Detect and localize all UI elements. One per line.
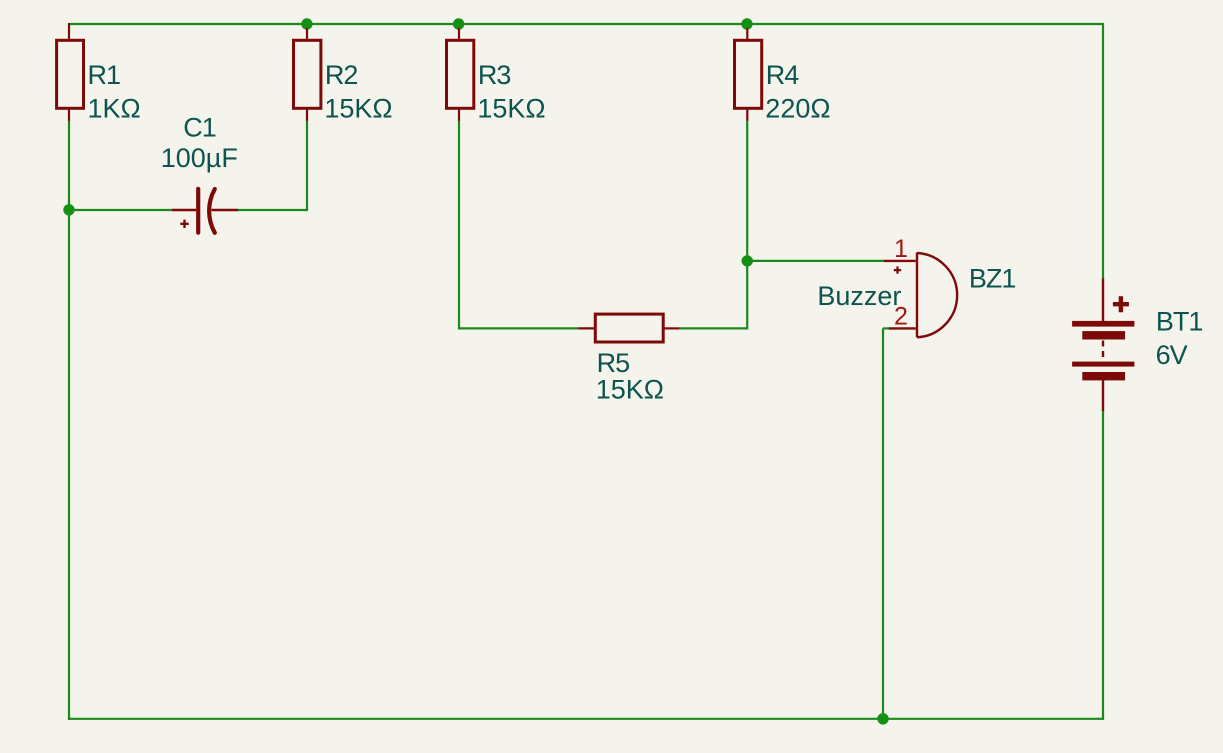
- wire R3 bottom vertical: [458, 120, 460, 330]
- junction node top R2: [301, 18, 312, 29]
- junction node bottom rail buzzer: [877, 713, 888, 724]
- resistor R3: [447, 28, 474, 121]
- buzzer pin 1: [884, 260, 916, 262]
- wire R5 right to corner: [679, 327, 747, 329]
- svg-text:BT1: BT1: [1156, 306, 1203, 336]
- battery plus mark: [1113, 296, 1129, 312]
- wire right rail upper: [1102, 23, 1104, 279]
- svg-text:100µF: 100µF: [161, 143, 238, 173]
- wire top rail: [69, 23, 1103, 25]
- wire R2 bottom vertical: [306, 120, 308, 211]
- svg-text:1KΩ: 1KΩ: [88, 93, 141, 123]
- wire R5 corner up to node: [746, 261, 748, 330]
- wire R4 bottom to node: [746, 120, 748, 261]
- resistor R1: [57, 23, 84, 121]
- svg-text:220Ω: 220Ω: [765, 93, 830, 123]
- wire node to buzzer pin1: [747, 260, 884, 262]
- svg-text:R5: R5: [597, 348, 630, 378]
- svg-text:BZ1: BZ1: [969, 263, 1016, 293]
- svg-text:2: 2: [894, 303, 907, 331]
- capacitor C1: [172, 189, 238, 233]
- svg-text:15KΩ: 15KΩ: [477, 93, 545, 123]
- buzzer plus mark: [894, 266, 901, 273]
- battery BT1: [1103, 279, 1129, 412]
- buzzer pin 2: [889, 327, 916, 329]
- wire bottom rail: [68, 718, 1104, 720]
- wire left rail: [68, 210, 70, 720]
- svg-text:R4: R4: [766, 60, 799, 90]
- wire junction to C1 left: [69, 209, 172, 211]
- buzzer BZ1: [884, 253, 957, 338]
- svg-text:15KΩ: 15KΩ: [324, 93, 392, 123]
- wire R3 corner to R5 left: [459, 327, 578, 329]
- resistor R2: [294, 28, 321, 121]
- svg-text:Buzzer: Buzzer: [817, 281, 901, 311]
- resistor R4: [735, 28, 762, 121]
- junction node top R4: [741, 18, 752, 29]
- svg-text:6V: 6V: [1156, 340, 1188, 370]
- wire right rail lower: [1102, 411, 1104, 720]
- resistor R5: [578, 314, 679, 342]
- wire buzzer pin2 stub: [883, 327, 889, 329]
- junction node left rail C1: [63, 204, 74, 215]
- wire R1 bottom to junction: [68, 120, 70, 210]
- svg-text:R2: R2: [325, 60, 358, 90]
- junction node top R3: [453, 18, 464, 29]
- svg-text:15KΩ: 15KΩ: [596, 375, 664, 405]
- junction node R4/R5/buzzer: [742, 255, 753, 266]
- wire C1 right to R2 bottom corner: [238, 209, 307, 211]
- svg-text:R1: R1: [88, 60, 121, 90]
- svg-text:C1: C1: [183, 113, 216, 143]
- svg-text:1: 1: [894, 235, 907, 263]
- wire buzzer pin2 down to bottom rail: [882, 328, 884, 718]
- svg-text:R3: R3: [478, 60, 511, 90]
